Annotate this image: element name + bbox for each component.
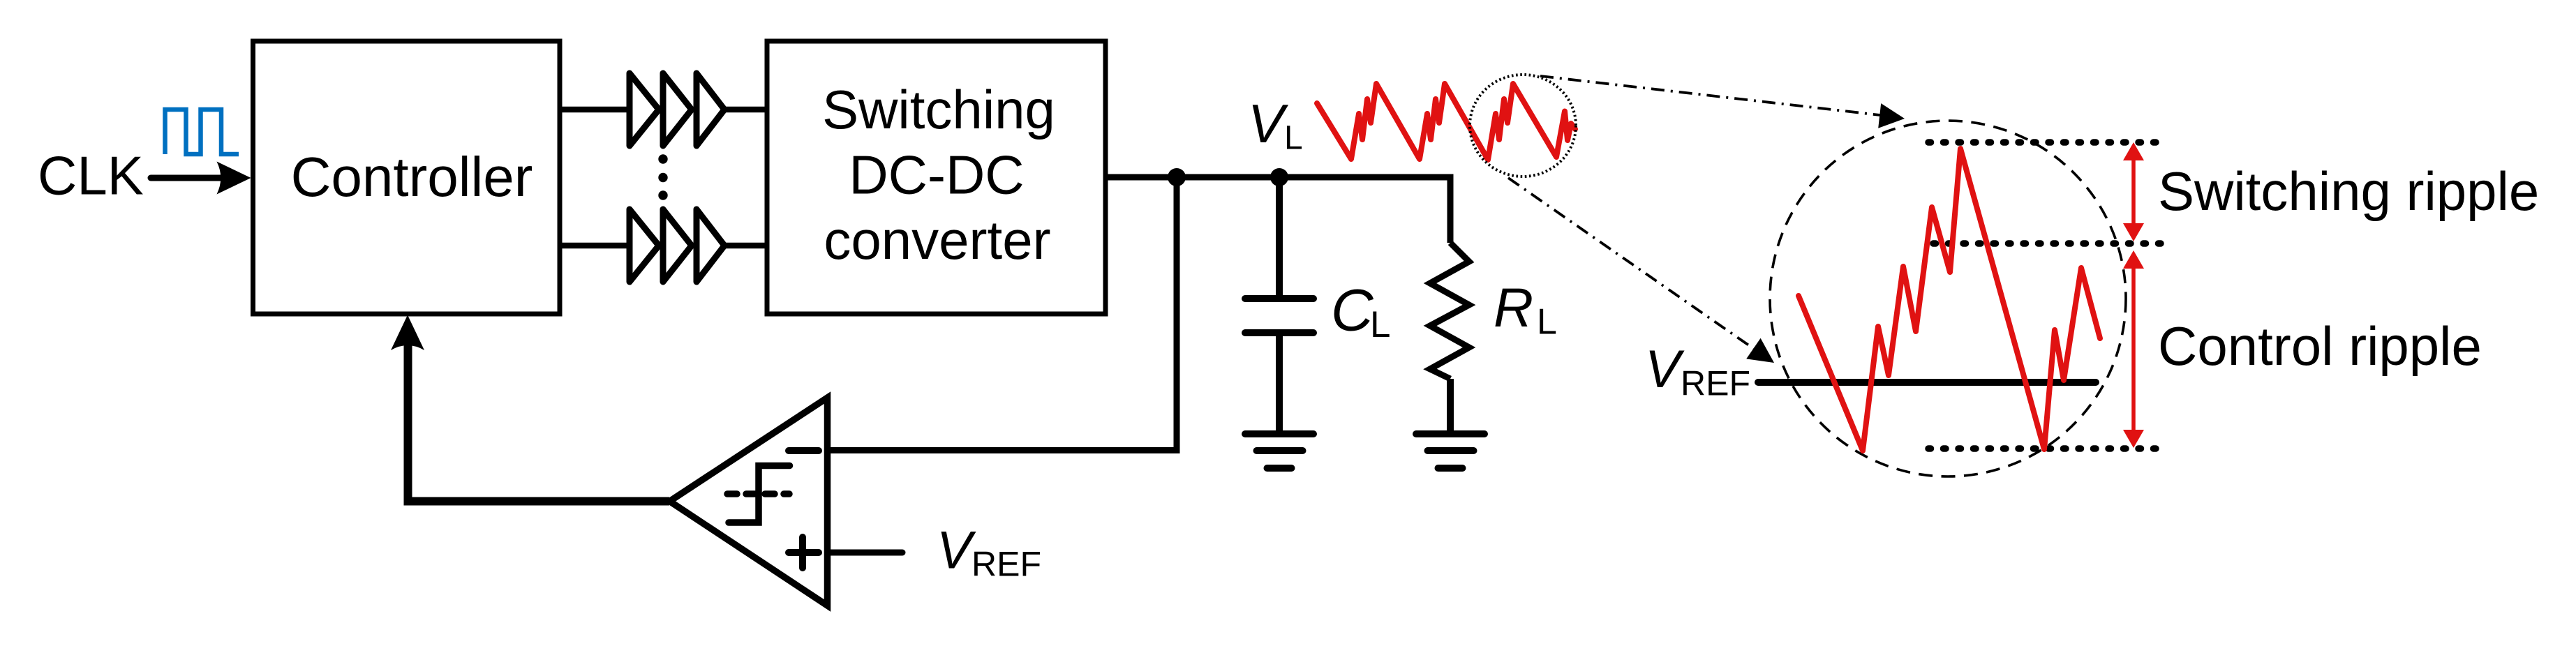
red ripple waveform at VL bbox=[1317, 84, 1575, 160]
block Controller U1 bbox=[253, 41, 560, 314]
svg-text:Switching ripple: Switching ripple bbox=[2158, 160, 2539, 222]
wire converter output to RL branch bbox=[1105, 177, 1450, 243]
svg-text:Control ripple: Control ripple bbox=[2158, 315, 2482, 377]
svg-text:L: L bbox=[1284, 120, 1303, 157]
buffer B3 bbox=[697, 73, 724, 146]
buffer B1 bbox=[630, 73, 659, 146]
svg-text:V: V bbox=[1248, 93, 1289, 154]
svg-text:L: L bbox=[1370, 304, 1390, 345]
VREF level line thick bbox=[1758, 379, 2096, 386]
svg-text:CLK: CLK bbox=[38, 145, 144, 206]
capacitor CL top plate bbox=[1245, 295, 1313, 302]
svg-text:Switching: Switching bbox=[822, 79, 1055, 140]
wire CLK input bbox=[151, 175, 222, 181]
leader dash-dot upper bbox=[1540, 76, 1880, 115]
buffer B4 bbox=[630, 209, 659, 282]
zoom circle large (dashed) bbox=[1770, 121, 2126, 476]
wire RL to ground bbox=[1447, 379, 1454, 434]
arrowhead leader lower bbox=[1746, 338, 1774, 363]
comparator minus input symbol bbox=[789, 447, 819, 454]
dotted level line top bbox=[1928, 139, 2164, 146]
red zoomed ripple waveform bbox=[1799, 149, 2100, 451]
wire VREF to plus input bbox=[828, 550, 902, 556]
capacitor CL bottom plate bbox=[1245, 329, 1313, 336]
svg-text:V: V bbox=[1645, 340, 1685, 399]
comparator plus input symbol bbox=[789, 537, 819, 568]
hysteresis symbol dashed threshold bbox=[727, 490, 789, 497]
dotted level line bottom bbox=[1928, 445, 2166, 452]
block Switching DC-DC converter U2 bbox=[767, 41, 1105, 314]
label Switching DC-DC converter bbox=[822, 79, 1055, 271]
resistor RL bbox=[1430, 243, 1469, 379]
ellipsis dots between buffer rows bbox=[658, 154, 667, 200]
arrowhead CLK into controller bbox=[217, 162, 251, 195]
wire buffer row 1 to converter bbox=[724, 107, 767, 113]
clock waveform CLK (blue) bbox=[165, 110, 239, 154]
svg-text:Controller: Controller bbox=[291, 146, 533, 208]
arrowhead leader upper bbox=[1878, 103, 1905, 128]
arrow switching ripple (red double-headed) bbox=[2123, 142, 2144, 241]
svg-text:REF: REF bbox=[1681, 364, 1750, 403]
label VL bbox=[1248, 93, 1303, 157]
svg-text:V: V bbox=[937, 521, 976, 580]
label RL bbox=[1494, 276, 1557, 343]
buffer B2 bbox=[663, 73, 692, 146]
wire buffer row 2 to converter bbox=[724, 243, 767, 249]
buffer B5 bbox=[663, 209, 692, 282]
buffer B6 bbox=[697, 209, 724, 282]
ground GND2 (RL) bbox=[1416, 434, 1484, 468]
svg-text:REF: REF bbox=[971, 545, 1041, 584]
label CL bbox=[1331, 278, 1390, 346]
wire VL node to capacitor bbox=[1276, 177, 1283, 299]
ground GND1 (CL) bbox=[1245, 434, 1313, 468]
label VREF (comparator) bbox=[937, 521, 1041, 584]
arrowhead feedback into controller bbox=[391, 315, 424, 351]
svg-text:R: R bbox=[1494, 276, 1533, 338]
leader dash-dot lower bbox=[1508, 178, 1754, 349]
wire CL to ground bbox=[1276, 333, 1283, 434]
svg-text:DC-DC: DC-DC bbox=[849, 144, 1024, 206]
svg-text:converter: converter bbox=[824, 209, 1050, 271]
hysteresis symbol step bbox=[729, 466, 790, 523]
dotted level line middle bbox=[1933, 240, 2166, 247]
wire controller to buffer row 2 bbox=[560, 243, 632, 249]
wire controller to buffer row 1 bbox=[560, 107, 632, 113]
node junction J2 (VL node) bbox=[1270, 168, 1288, 186]
node junction J1 bbox=[1168, 168, 1186, 186]
wire feedback from node down to comparator bbox=[828, 177, 1177, 451]
arrow control ripple (red double-headed) bbox=[2123, 250, 2144, 448]
svg-text:C: C bbox=[1331, 278, 1374, 343]
label VREF (right) bbox=[1645, 340, 1750, 403]
svg-text:L: L bbox=[1537, 302, 1557, 343]
comparator U3 bbox=[670, 398, 828, 606]
zoom circle small (dotted) bbox=[1470, 75, 1576, 176]
wire comparator output to controller bbox=[408, 345, 670, 502]
